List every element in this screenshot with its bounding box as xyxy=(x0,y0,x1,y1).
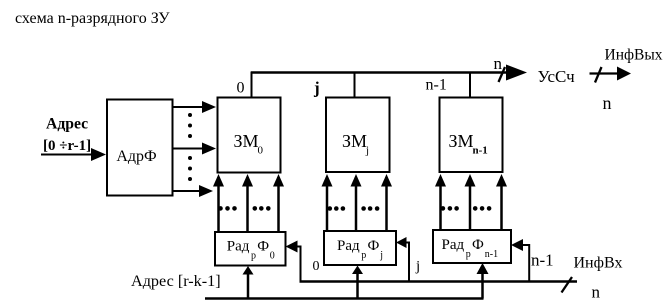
svg-text:[0 ÷r-1]: [0 ÷r-1] xyxy=(43,138,91,154)
wire АдрФ to ЗМ0 (line 1) xyxy=(172,101,216,113)
svg-text:0: 0 xyxy=(237,80,245,97)
block РадрФn-1 xyxy=(433,230,511,263)
svg-text:j: j xyxy=(313,79,320,98)
svg-text:Адрес: Адрес xyxy=(46,116,88,133)
wire bus to Радj xyxy=(352,266,363,299)
block РадрФ0 xyxy=(215,232,286,266)
wires Рад0 to ЗМ0 with arrows xyxy=(219,177,279,232)
label Адрес [r-k-1] xyxy=(131,272,221,290)
svg-text:0: 0 xyxy=(313,259,320,274)
svg-text:ИнфВх: ИнфВх xyxy=(574,255,623,272)
svg-text:n: n xyxy=(592,283,601,302)
node label 0 xyxy=(313,259,320,274)
node label n-1 xyxy=(531,251,554,270)
ellipsis dots between address lines xyxy=(188,113,192,181)
wires Радn-1 to ЗМn-1 with arrows xyxy=(441,177,502,230)
svg-text:ЗМ: ЗМ xyxy=(449,131,474,151)
wire ЗМj to bus xyxy=(354,72,356,98)
label УсСч xyxy=(538,67,576,86)
svg-text:ЗМ: ЗМ xyxy=(342,131,367,151)
node label n-1 xyxy=(426,77,447,94)
svg-text:n: n xyxy=(603,93,612,113)
wires Радj to ЗМj with arrows xyxy=(327,177,387,231)
svg-text:р: р xyxy=(361,250,366,261)
bus slash mark xyxy=(499,67,506,82)
dots below ЗМ0 xyxy=(218,206,270,211)
bus ИнфВх wire xyxy=(300,277,578,293)
dots below ЗМj xyxy=(328,206,380,211)
svg-text:Ф: Ф xyxy=(472,237,484,253)
svg-text:Рад: Рад xyxy=(442,237,465,253)
svg-text:АдрФ: АдрФ xyxy=(116,148,156,165)
bus width label n xyxy=(494,54,503,73)
top bus wire xyxy=(251,71,514,74)
svg-text:Адрес [r-k-1]: Адрес [r-k-1] xyxy=(131,272,221,290)
block ЗМj xyxy=(326,98,390,173)
svg-text:n-1: n-1 xyxy=(531,251,554,270)
svg-text:ЗМ: ЗМ xyxy=(234,131,259,151)
node label j xyxy=(313,79,320,98)
block ЗМ0 xyxy=(218,98,281,173)
svg-text:n-1: n-1 xyxy=(426,77,447,94)
wire АдрФ to ЗМ0 (line 3) xyxy=(172,185,213,197)
ИнфВх width label n xyxy=(592,283,601,302)
svg-text:n: n xyxy=(494,54,503,73)
svg-text:j: j xyxy=(365,145,369,157)
svg-text:n-1: n-1 xyxy=(473,145,488,157)
svg-text:Рад: Рад xyxy=(337,238,360,254)
label ИнфВх xyxy=(574,255,623,272)
node label j xyxy=(415,259,420,275)
wire select 0 into Рад0 xyxy=(286,241,302,283)
title: схема n-разрядного ЗУ xyxy=(15,10,170,27)
block ЗМn-1 xyxy=(440,98,503,173)
wire АдрФ to ЗМ0 (line 2) xyxy=(172,143,216,155)
wire bus to Рад0 xyxy=(243,266,254,299)
svg-text:Рад: Рад xyxy=(227,239,250,255)
block РадрФj xyxy=(324,231,396,265)
svg-text:0: 0 xyxy=(270,251,275,262)
wire ИнфВых output xyxy=(590,67,632,83)
svg-text:j: j xyxy=(415,259,420,275)
svg-text:схема n-разрядного ЗУ: схема n-разрядного ЗУ xyxy=(15,10,170,27)
wire ЗМn-1 to bus xyxy=(469,72,471,98)
wire: address input to АдрФ xyxy=(41,148,106,161)
ИнфВых width label n xyxy=(603,93,612,113)
bus Адрес r-k-1 wire xyxy=(205,297,484,300)
node label 0 xyxy=(237,80,245,97)
wire select n-1 into Радn-1 xyxy=(511,239,530,282)
wire bus to Радn-1 xyxy=(477,263,489,299)
wire select j into Радj xyxy=(396,237,410,282)
svg-text:Ф: Ф xyxy=(368,238,380,254)
arrow to УсСч xyxy=(506,65,527,81)
block АдрФ xyxy=(107,100,173,196)
dots below ЗМn-1 xyxy=(441,206,492,211)
svg-text:р: р xyxy=(251,251,256,262)
svg-text:р: р xyxy=(466,249,471,260)
svg-text:n-1: n-1 xyxy=(485,249,498,260)
wire ЗМ0 to bus xyxy=(251,72,253,98)
label Адрес [0 - r-1] xyxy=(43,116,91,155)
svg-text:j: j xyxy=(379,250,383,261)
svg-text:ИнфВых: ИнфВых xyxy=(605,47,663,64)
svg-text:0: 0 xyxy=(258,145,264,157)
svg-text:Ф: Ф xyxy=(257,239,269,255)
label ИнфВых xyxy=(605,47,663,64)
svg-text:УсСч: УсСч xyxy=(538,67,576,86)
